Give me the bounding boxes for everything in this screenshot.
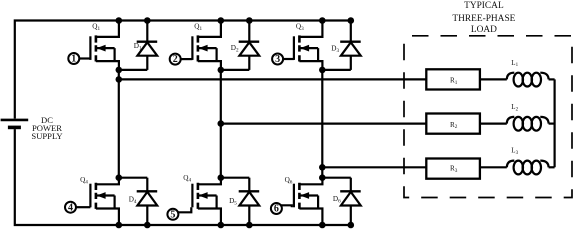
wire: L2 to neutral bus: [549, 122, 555, 124]
junction: bottom rail / Q4 source: [116, 222, 123, 229]
diode D3 symbol (cathode bar + triangle): [340, 41, 361, 43]
transistor Q (Q4): [90, 183, 114, 209]
diode D2 anode lead: [248, 56, 250, 70]
wire: Q4 gate lead from drive node: [76, 206, 91, 208]
wire: Q4 source lead: [96, 209, 119, 226]
wire: Q2 gate lead from drive node: [180, 58, 192, 60]
load box: dashed boundary of typical three-phase load: [404, 36, 572, 198]
svg-text:6: 6: [274, 204, 279, 215]
wire: leg 2 bottom midpoint node (Q5 drain / D5 cathode): [221, 177, 250, 179]
wire: Q5 gate lead from drive node: [178, 207, 191, 212]
wire: Q1 drain lead: [96, 21, 119, 37]
diode D6 anode lead: [350, 206, 352, 226]
wire: Q5 drain lead: [198, 178, 221, 185]
junction: top rail / Q2 drain: [218, 17, 225, 24]
inductor L3: [507, 161, 549, 175]
wire: leg 1 bottom midpoint node (Q4 drain / D4 cathode): [119, 177, 148, 179]
wire: phase B output line to load: [221, 122, 426, 124]
resistor R1: [426, 69, 480, 89]
transistor Q (Q2): [192, 35, 216, 61]
inductor L2: [507, 117, 549, 131]
wire: Q1 gate lead from drive node: [79, 57, 90, 59]
junction: phase B tap: [218, 120, 225, 127]
node 1: gate drive terminal circled 1: [68, 53, 79, 64]
diode D3 anode lead: [350, 56, 352, 70]
svg-text:2: 2: [173, 54, 178, 65]
wire: R1 to L1: [480, 78, 507, 80]
diode D4 anode lead: [146, 206, 148, 226]
wire: Q3 source lead: [299, 61, 322, 70]
node 6: gate drive terminal circled 6: [271, 203, 282, 214]
resistor R2: [426, 114, 480, 134]
diode D1 symbol (cathode bar + triangle): [137, 41, 158, 43]
transistor Q (Q5): [192, 183, 216, 209]
diode D6 cathode lead: [350, 178, 352, 192]
junction: leg 2 bottom midpoint: [218, 174, 225, 181]
inductor L1: [507, 73, 549, 87]
node 3: gate drive terminal circled 3: [272, 54, 283, 65]
wire: L1 to neutral bus: [549, 78, 555, 80]
wire: load neutral bus (right side): [553, 79, 555, 167]
diode D6 symbol (cathode bar + triangle): [340, 190, 361, 192]
wire: Q2 drain lead: [198, 21, 221, 37]
junction: leg 1 top midpoint: [116, 67, 123, 74]
junction: leg 1 bottom midpoint: [116, 174, 123, 181]
transistor Q (Q1): [90, 35, 114, 61]
diode D2 cathode lead: [248, 21, 250, 42]
battery: DC power supply short (-) plate: [8, 126, 21, 130]
wire: leg 3 vertical (phase C node): [321, 70, 323, 178]
wire: leg 3 bottom midpoint node (Q6 drain / D6 cathode): [322, 177, 351, 179]
battery: DC power supply long (+) plate: [1, 119, 29, 122]
wire: Q6 gate lead from drive node: [281, 205, 292, 207]
junction: top rail / D2: [246, 17, 253, 24]
wire: R3 to L3: [480, 166, 507, 168]
wire: Q3 gate lead from drive node: [283, 58, 294, 60]
wire: Q6 source lead: [299, 209, 322, 226]
transistor Q (Q6): [294, 183, 318, 209]
wire: leg 1 vertical (phase A node): [118, 70, 120, 178]
svg-text:TYPICAL: TYPICAL: [464, 1, 504, 11]
junction: leg 2 top midpoint: [218, 67, 225, 74]
wire: leg 1 top midpoint node (Q1 source / D1 anode): [119, 69, 148, 71]
diode D3 cathode lead: [350, 21, 352, 42]
svg-text:LOAD: LOAD: [471, 25, 497, 35]
diode D1 anode lead: [146, 56, 148, 70]
wire: leg 2 top midpoint node (Q2 source / D2 anode): [221, 69, 250, 71]
transistor Q (Q3): [294, 35, 318, 61]
svg-text:SUPPLY: SUPPLY: [31, 131, 62, 141]
wire: Q1 source lead: [96, 61, 119, 70]
svg-text:1: 1: [71, 54, 76, 65]
junction: leg 3 bottom midpoint: [319, 174, 326, 181]
diode D2 symbol (cathode bar + triangle): [239, 41, 260, 43]
junction: phase C tap: [319, 164, 326, 171]
junction: top rail / D3: [348, 17, 355, 24]
svg-text:4: 4: [68, 202, 73, 213]
junction: bottom rail / D5: [246, 222, 253, 229]
wire: negative DC rail (bottom) and left wire from battery -: [15, 129, 351, 225]
resistor R3: [426, 159, 480, 179]
junction: bottom rail / Q5 source: [218, 222, 225, 229]
diode D4 symbol (cathode bar + triangle): [137, 190, 158, 192]
node 5: gate drive terminal circled 5: [167, 209, 178, 220]
junction: bottom rail / Q6 source: [319, 222, 326, 229]
junction: top rail / Q1 drain: [116, 17, 123, 24]
diode D5 symbol (cathode bar + triangle): [239, 190, 260, 192]
diode D5 anode lead: [248, 206, 250, 226]
junction: bottom rail / D4: [144, 222, 151, 229]
junction: phase A tap: [116, 76, 123, 83]
svg-text:3: 3: [275, 54, 280, 65]
wire: leg 3 top midpoint node (Q3 source / D3 anode): [322, 69, 351, 71]
wire: R2 to L2: [480, 122, 507, 124]
svg-text:5: 5: [170, 209, 175, 220]
diode D1 cathode lead: [146, 21, 148, 42]
wire: L3 to neutral bus: [549, 166, 555, 168]
wire: Q6 drain lead: [299, 178, 322, 185]
junction: bottom rail / D6: [348, 222, 355, 229]
junction: top rail / Q3 drain: [319, 17, 326, 24]
svg-text:THREE-PHASE: THREE-PHASE: [452, 14, 515, 24]
wire: leg 2 vertical (phase B node): [220, 70, 222, 178]
junction: top rail / D1: [144, 17, 151, 24]
wire: Q5 source lead: [198, 209, 221, 226]
wire: Q4 drain lead: [96, 178, 119, 185]
node 4: gate drive terminal circled 4: [65, 202, 76, 213]
wire: positive DC rail (top) and left wire to battery +: [15, 21, 351, 119]
diode D5 cathode lead: [248, 178, 250, 192]
diode D4 cathode lead: [146, 178, 148, 192]
wire: Q3 drain lead: [299, 21, 322, 37]
wire: Q2 source lead: [198, 61, 221, 70]
junction: leg 3 top midpoint: [319, 67, 326, 74]
wire: phase C output line to load: [322, 166, 426, 168]
node 2: gate drive terminal circled 2: [170, 54, 181, 65]
wire: phase A output line to load: [119, 78, 427, 80]
